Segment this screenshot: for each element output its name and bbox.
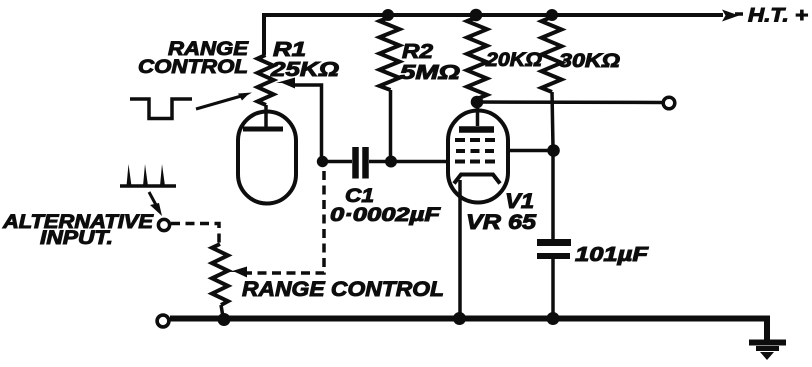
svg-text:INPUT.: INPUT.: [40, 228, 113, 249]
svg-text:0·0002µF: 0·0002µF: [330, 205, 442, 226]
svg-text:V1: V1: [505, 190, 534, 213]
svg-text:VR 65: VR 65: [466, 211, 536, 234]
node on rail: 30K top: [546, 9, 558, 21]
terminal: ground rail left: [157, 315, 169, 327]
H.T.+ arrowhead: [722, 10, 743, 22]
svg-text:101µF: 101µF: [575, 244, 649, 266]
node: 20K / V1 anode / output junction: [471, 96, 484, 109]
waveform: pulse train (three spikes): [120, 164, 176, 186]
svg-text:RANGE CONTROL: RANGE CONTROL: [242, 278, 444, 301]
svg-text:5MΩ: 5MΩ: [400, 62, 461, 84]
wire: V1 cathode down to ground rail: [458, 180, 462, 317]
waveform: negative square pulse: [130, 99, 192, 119]
node: C1 / R2 / V1 grid junction: [385, 156, 397, 168]
svg-text:R1: R1: [273, 39, 306, 61]
wire: V1 screen grid to 30K junction: [506, 149, 552, 153]
svg-text:H.T. +: H.T. +: [748, 5, 808, 27]
node on rail: 20K top: [470, 9, 483, 22]
left tube (diode) envelope: [238, 112, 296, 204]
wire: junction to C1 left plate: [322, 160, 352, 164]
wire: junction down to 101uF capacitor: [551, 150, 555, 240]
svg-text:25KΩ: 25KΩ: [270, 59, 340, 81]
node on rail: potentiometer bottom: [218, 313, 231, 326]
wire: node to V1 control grid: [391, 160, 449, 164]
ground rail (bottom): [170, 319, 767, 344]
lower potentiometer wiper arrow (dashed) to junction: [229, 167, 324, 278]
svg-text:30KΩ: 30KΩ: [559, 51, 620, 72]
svg-text:C1: C1: [345, 186, 374, 207]
terminal: output: [663, 97, 675, 109]
ground (earth) symbol: [749, 343, 786, 361]
wire: C1 right plate to R2 node: [369, 160, 392, 164]
resistor R1 25K (range control potentiometer): [258, 55, 274, 105]
svg-text:R2: R2: [402, 41, 433, 63]
node on rail: 101uF capacitor: [547, 312, 560, 325]
node: screen / 30K / capacitor junction: [547, 144, 560, 157]
V1 cathode: [454, 175, 500, 184]
capacitor C1 0.0002uF: [356, 147, 366, 179]
terminal: alternative input: [158, 219, 169, 230]
node on rail: R2 top: [382, 9, 394, 21]
wire: capacitor to ground rail: [551, 256, 555, 317]
capacitor 101uF: [537, 243, 571, 257]
svg-text:20KΩ: 20KΩ: [485, 50, 542, 71]
annotation arrow to R1 wiper: [196, 93, 252, 110]
wire: anode to output terminal: [477, 100, 662, 104]
resistor 30K: [542, 17, 562, 147]
V1 anode (bar and lead up to node): [459, 102, 494, 130]
svg-text:CONTROL: CONTROL: [138, 57, 248, 78]
resistor R2 5M: [380, 17, 400, 158]
node: wiper / C1 / dashed range-control junction: [317, 156, 328, 167]
wire: H.T.+ supply rail: [264, 15, 723, 55]
left tube anode bar and top lead from R1: [243, 105, 283, 129]
V1 grids (dashed): [455, 140, 497, 162]
potentiometer (lower range control): [212, 244, 228, 317]
wire (dashed): alternative input to lower potentiometer: [171, 224, 219, 245]
annotation arrow to alternative input terminal: [149, 192, 162, 216]
R1 wiper arrow and wire down to junction: [276, 78, 322, 162]
node on rail: V1 cathode: [453, 312, 466, 325]
resistor 20K: [467, 17, 487, 99]
tube V1 envelope: [448, 111, 508, 203]
